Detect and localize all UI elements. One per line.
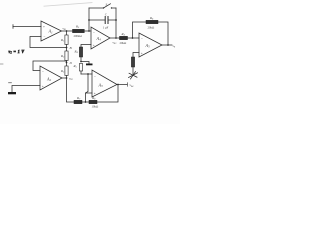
A2 + input wire to ground — [12, 86, 40, 93]
wire input to A1 + — [13, 26, 41, 28]
resistor R2 vertical — [60, 48, 68, 63]
svg-text:A2: A2 — [46, 76, 52, 82]
node feedback tap — [132, 37, 134, 39]
resistor R4 20k horizontal — [120, 32, 128, 45]
wire A4 output to node vo3 — [110, 37, 120, 39]
svg-text:+: + — [93, 44, 95, 48]
A2 feedback wire to node D — [33, 61, 67, 71]
node at A4 inverting input — [88, 30, 90, 32]
small minus mark — [9, 82, 12, 84]
svg-text:1 μF: 1 μF — [103, 26, 109, 30]
svg-text:+: + — [141, 51, 143, 55]
op-amp A5 — [139, 33, 162, 57]
node vo2 — [66, 77, 68, 79]
svg-text:D: D — [69, 61, 73, 65]
wire R5 to A4 - input — [85, 30, 92, 32]
A5 feedback: up and over with R6 20k — [133, 16, 169, 45]
node on A3 top input wire — [87, 73, 89, 75]
svg-text:A3: A3 — [98, 82, 104, 88]
node vo1 — [66, 30, 68, 32]
svg-text:−: − — [141, 37, 143, 41]
op-amp A1 — [41, 21, 62, 41]
op-amp A3 — [92, 70, 117, 97]
wire R8 to A3 output feedback — [97, 85, 118, 103]
svg-text:−: − — [42, 70, 44, 74]
wire node down to bottom tap — [86, 74, 89, 93]
integrator loop: left vertical wire — [88, 8, 90, 31]
wire A3 output — [117, 84, 127, 86]
svg-text:200kΩ: 200kΩ — [74, 34, 83, 38]
A1 feedback wire to node B — [30, 37, 67, 48]
resistor R1 vertical — [60, 31, 68, 48]
ground bar at divider — [86, 64, 93, 66]
capacitor C 1uF — [89, 12, 116, 29]
wire A1 output to node vo1 — [62, 30, 73, 32]
resistor divider upper — [74, 47, 83, 62]
node A3 output — [117, 84, 119, 86]
svg-text:20kΩ: 20kΩ — [148, 25, 156, 29]
wire node to ground bar — [81, 62, 89, 64]
svg-text:+: + — [43, 25, 45, 29]
wire between bottom resistors — [82, 101, 89, 103]
svg-text:10kΩ: 10kΩ — [92, 104, 100, 108]
input terminal vI — [12, 25, 14, 29]
node vo3 — [115, 37, 117, 39]
svg-text:−: − — [93, 30, 95, 34]
A5 + input resistor to ground — [131, 53, 139, 75]
ground at A2 + input — [8, 92, 16, 94]
svg-text:−: − — [94, 74, 96, 78]
node A5 output — [167, 44, 169, 46]
wire node up to A3 + input — [86, 93, 93, 102]
wire vo2 down to bottom rail — [67, 78, 75, 102]
resistor R7 horizontal bottom left — [74, 96, 82, 104]
wire R4 to A5 - input — [128, 37, 140, 39]
svg-text:A5: A5 — [145, 43, 151, 49]
loop junction dots — [88, 19, 90, 21]
hatched ground at A5 + — [129, 72, 138, 80]
resistor R8 10k horizontal bottom right — [89, 96, 99, 108]
svg-text:B: B — [70, 46, 72, 50]
terminal tick — [127, 83, 129, 87]
svg-text:R1: R1 — [60, 38, 64, 43]
wire A2 output to node vo2 — [62, 77, 67, 79]
wire divider to A3 top input — [81, 73, 92, 75]
node D — [66, 62, 68, 64]
wire A5 output — [162, 44, 172, 46]
svg-text:20kΩ: 20kΩ — [120, 41, 128, 45]
resistor divider lower — [73, 64, 83, 75]
A4 + input wire to divider — [81, 45, 91, 48]
resistor R3 vertical — [60, 63, 68, 79]
faint scan streak — [44, 3, 92, 7]
node between divider resistors — [80, 61, 82, 63]
svg-text:v01: v01 — [63, 26, 67, 31]
node at A3 + tap — [85, 101, 87, 103]
svg-text:vI = 1 V: vI = 1 V — [9, 50, 25, 55]
integrator loop: right vertical wire — [115, 8, 117, 38]
svg-text:−: − — [43, 35, 45, 39]
node B — [66, 47, 68, 49]
svg-text:A4: A4 — [96, 36, 102, 42]
op-amp A2 — [40, 66, 62, 90]
svg-text:S: S — [106, 2, 108, 6]
resistor R5 200k horizontal — [73, 25, 85, 39]
op-amp A4 — [91, 27, 110, 49]
svg-text:+: + — [94, 92, 96, 96]
faint edge tick — [0, 63, 3, 65]
svg-text:+: + — [42, 84, 44, 88]
switch S — [89, 2, 116, 8]
svg-text:A1: A1 — [48, 29, 54, 35]
